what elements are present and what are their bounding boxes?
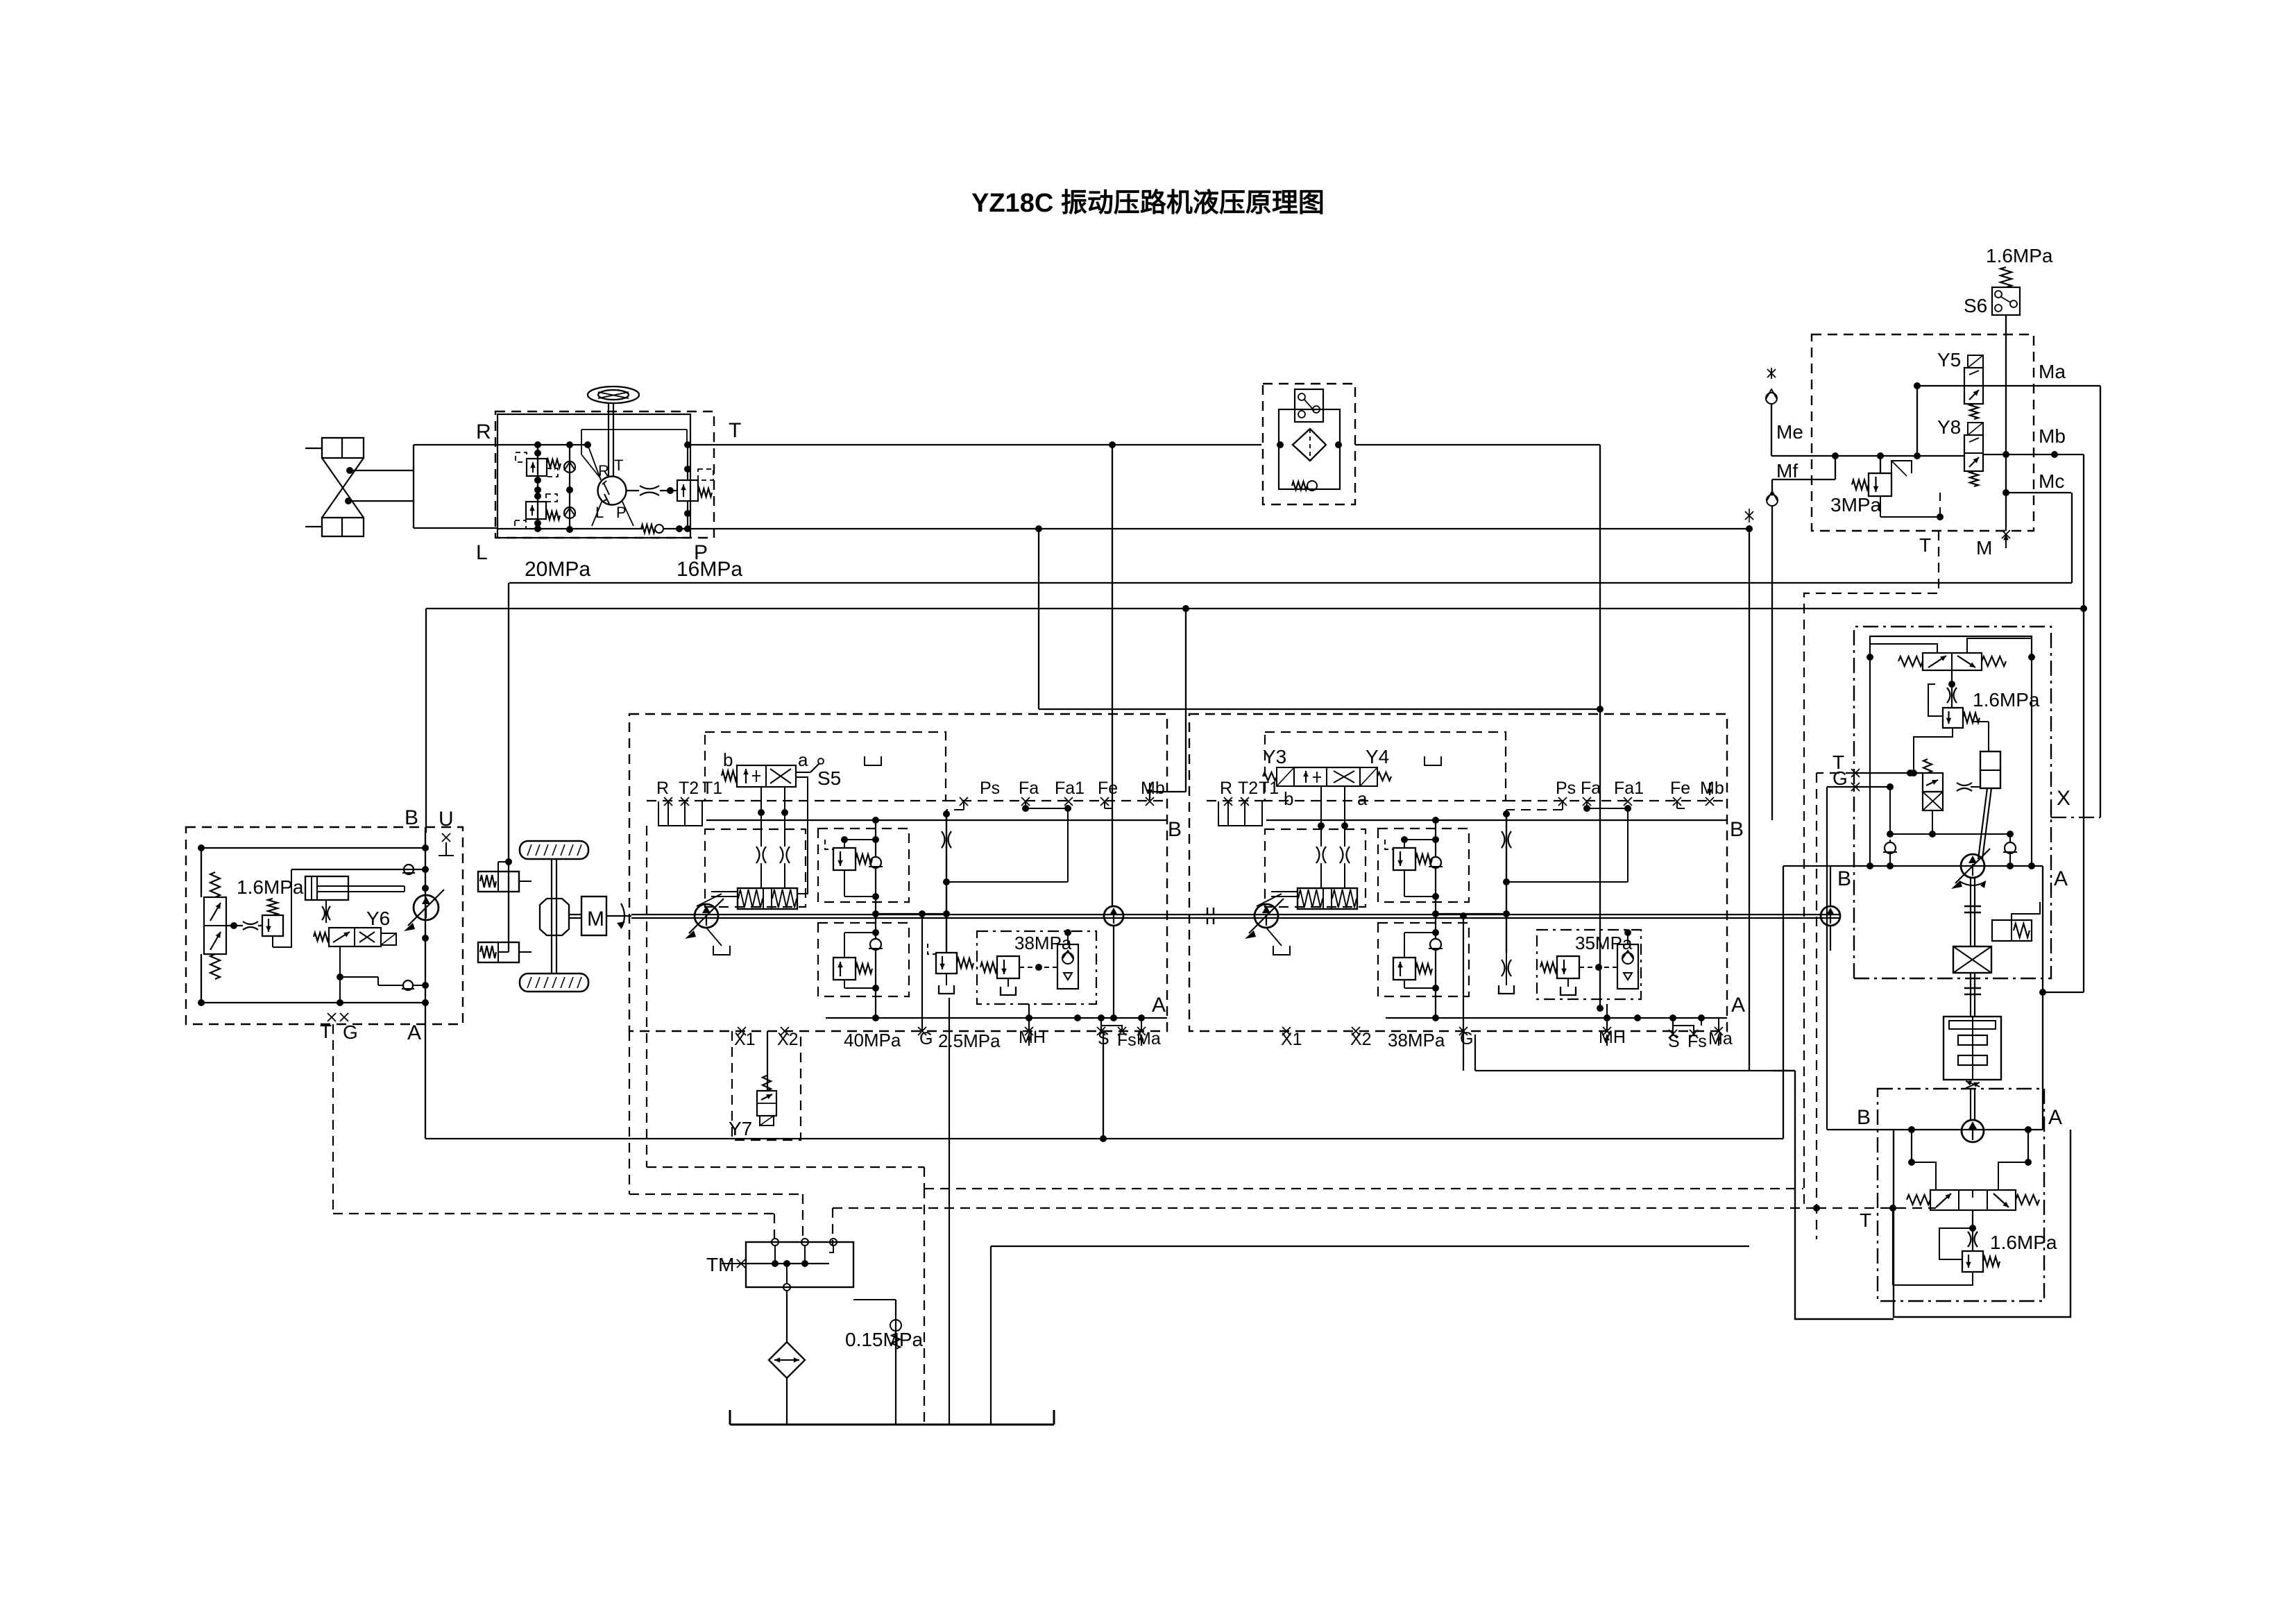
steering wheel	[588, 386, 639, 403]
wire towing drop to left valve block x614	[425, 609, 427, 833]
pump2 high pressure relief upper cluster	[1378, 820, 1469, 909]
wire pump2 A line	[1386, 1014, 1727, 1021]
svg-text:38MPa: 38MPa	[1388, 1030, 1445, 1051]
wire drum motor B A line	[1827, 1126, 2043, 1133]
svg-text:0.15MPa: 0.15MPa	[845, 1329, 923, 1350]
pump2 stroking cylinder	[1257, 888, 1357, 909]
wire Me Mf supply into block	[1771, 452, 1964, 495]
shaft coupling vib top	[1964, 906, 1981, 912]
label B (pump1)	[1168, 818, 1182, 841]
svg-text:R: R	[1220, 779, 1232, 798]
pump1 servo orifices	[756, 813, 790, 888]
pressure switch S6	[1992, 287, 2020, 315]
label Me	[1776, 421, 1803, 443]
wire riser x1709 to pump1 Mb port	[1150, 609, 1186, 800]
pump2 high pressure relief lower cluster	[1378, 909, 1469, 1018]
steering relief riser rail	[534, 441, 541, 532]
svg-text:B: B	[1168, 818, 1182, 841]
vibration arrows below drum	[1966, 1081, 1980, 1089]
pump1 38MPa pilot relief cluster	[977, 929, 1096, 1004]
vibration pump circle	[1951, 849, 1990, 889]
wire pump2 B line	[1266, 810, 1727, 824]
shaft coupling vib bottom	[1964, 988, 1981, 994]
label T (brake block)	[1919, 534, 1931, 556]
drum motor circle	[1962, 1089, 1984, 1142]
svg-text:Y3: Y3	[1263, 746, 1286, 767]
pump1 high pressure relief lower cluster	[818, 909, 909, 1018]
label 1.6MPa (S6 switch)	[1986, 245, 2053, 266]
steering unit dashed enclosure	[495, 411, 714, 538]
return filter inner box	[1279, 409, 1340, 489]
wire S5 to servo	[758, 777, 808, 894]
label A (pump2)	[1731, 994, 1745, 1017]
svg-text:M: M	[1976, 537, 1992, 559]
vibratory drum housing	[1944, 1017, 2001, 1080]
wire suction vertical x1603 from T line to charge pump	[1112, 445, 1113, 906]
solenoid valve Y3 Y4	[1263, 767, 1391, 786]
wire Fe2 riser	[1677, 801, 1685, 808]
svg-text:A: A	[407, 1021, 421, 1044]
label X (vib)	[2057, 787, 2070, 810]
svg-text:T1: T1	[1259, 779, 1279, 798]
steering linkage cross	[322, 458, 364, 518]
svg-text:Fe: Fe	[1670, 779, 1690, 798]
steering bypass orifice with circle	[641, 525, 663, 533]
svg-text:Fe: Fe	[1098, 779, 1118, 798]
label B (vib)	[1837, 867, 1851, 890]
wire vib pilot rail y1202	[1887, 831, 2014, 842]
pump1 G port line	[919, 910, 926, 1031]
svg-text:a: a	[798, 749, 808, 770]
manual valve S5	[722, 758, 824, 787]
towing valve orifice	[226, 921, 262, 930]
charge pump circle	[1104, 906, 1123, 926]
cooler bypass check 0.15MPa	[853, 1300, 901, 1425]
towing directional valve	[204, 872, 226, 979]
svg-text:S5: S5	[817, 767, 841, 789]
label 20MPa	[525, 558, 590, 581]
svg-text:X2: X2	[777, 1030, 799, 1049]
wire check line y1253	[291, 866, 429, 873]
pump1 outer dashed enclosure	[629, 714, 1167, 1031]
label S6	[1964, 295, 1987, 316]
steering unit inner box	[498, 414, 690, 538]
pump2 ports dashed row	[1207, 800, 1727, 801]
svg-text:40MPa: 40MPa	[844, 1030, 901, 1051]
label Y7	[729, 1118, 752, 1139]
steering 16MPa relief valve	[677, 469, 713, 501]
front tyre	[520, 841, 588, 859]
wire vib valve output	[1928, 670, 1957, 716]
steering cylinder body	[322, 438, 364, 536]
wire T return line from steering to filter	[690, 441, 1261, 448]
svg-text:A: A	[1731, 994, 1745, 1017]
label T (drum motor)	[1860, 1209, 1871, 1231]
svg-text:MH: MH	[1599, 1028, 1626, 1047]
pump1 gauge ports R T2 T1	[656, 779, 722, 826]
svg-text:T: T	[729, 419, 741, 442]
wire towing line Mb horizontal y877	[426, 605, 2084, 612]
steering check valve upper	[564, 461, 575, 473]
dashed drains pump1 to TM	[629, 826, 924, 1240]
svg-text:Mf: Mf	[1776, 460, 1798, 482]
label 0.15MPa	[845, 1329, 923, 1350]
svg-text:Mc: Mc	[2039, 470, 2064, 492]
vibration charge relief 1.6MPa	[1943, 708, 1980, 728]
TM top connection circles	[772, 1239, 837, 1264]
check valve Me	[1766, 368, 1777, 456]
label Y3	[1263, 746, 1286, 767]
label B (left block)	[405, 806, 418, 829]
vibration gearbox	[1953, 946, 1991, 973]
svg-text:Mb: Mb	[1700, 779, 1724, 798]
pump2 inner Y3Y4 dashed box	[1265, 732, 1506, 801]
pump2 servo dashed box	[1265, 829, 1366, 907]
TM gauge port	[722, 1259, 746, 1268]
svg-text:Fa1: Fa1	[1614, 779, 1644, 798]
svg-text:T1: T1	[702, 779, 722, 798]
label Mb	[2039, 425, 2066, 447]
pump2 port labels top	[1556, 779, 1724, 806]
label 1.6MPa (vib)	[1973, 689, 2040, 711]
svg-text:16MPa: 16MPa	[677, 558, 742, 581]
pilot bracket symbol pump2	[1425, 756, 1441, 765]
left block port marks	[328, 1013, 348, 1021]
label Ma	[2039, 361, 2066, 382]
pump2 35MPa pilot relief cluster	[1537, 929, 1641, 999]
vibration orifice	[1943, 782, 1972, 791]
pump1 stroking cylinder	[697, 888, 797, 909]
hand pump circle	[404, 890, 444, 931]
svg-text:A: A	[2054, 867, 2068, 890]
label a (pump2)	[1357, 788, 1368, 809]
wire brake drop to wheel brakes x733	[508, 583, 509, 952]
drum drive motor dashdot enclosure	[1878, 1089, 2044, 1301]
label b (pump2)	[1284, 788, 1293, 809]
steering valve connection diagonals	[581, 430, 687, 526]
port label L (steering)	[476, 541, 488, 564]
pump2 servo orifices	[1316, 826, 1350, 888]
wire left block top rail	[198, 844, 429, 851]
label a (pump1)	[798, 749, 808, 770]
svg-text:A: A	[2048, 1106, 2062, 1129]
label T (vib block)	[1832, 751, 1844, 773]
main drive shaft	[631, 915, 1840, 918]
label Y4	[1366, 746, 1389, 767]
svg-text:Y7: Y7	[729, 1118, 752, 1139]
svg-text:X1: X1	[734, 1030, 756, 1049]
vibration block dashdot enclosure	[1854, 627, 2051, 978]
label A (left block)	[407, 1021, 421, 1044]
svg-text:1.6MPa: 1.6MPa	[1990, 1232, 2057, 1253]
wire charge pump to A	[1110, 926, 1117, 1021]
label B (pump2)	[1730, 818, 1744, 841]
svg-text:Me: Me	[1776, 421, 1803, 443]
wire suction header y1796	[991, 1246, 1749, 1247]
wire cooler to tank	[786, 1378, 788, 1425]
steering flow restrictor	[626, 486, 677, 495]
svg-text:T: T	[1860, 1209, 1871, 1231]
drive shaft diff to engine	[569, 915, 581, 918]
label 35MPa (pump2 pilot)	[1575, 933, 1633, 953]
pump1 main pump circle	[685, 899, 724, 939]
pilot bracket symbol pump1	[865, 756, 881, 765]
vib block T G ports	[1851, 769, 1923, 834]
TM manifold box	[746, 1242, 853, 1287]
vibration shaft lower	[1971, 973, 1975, 1017]
wire vib motor B A line	[1783, 863, 2043, 869]
solenoid valve Y5	[1964, 355, 1983, 419]
pump2 gauge ports R T2 T1	[1218, 779, 1279, 826]
svg-text:TM: TM	[706, 1254, 734, 1275]
steering column shaft	[609, 403, 613, 477]
charge pump 2 circle	[1821, 906, 1840, 926]
wire cylinder to steering valve L line	[414, 527, 498, 529]
pump1 servo dashed box	[705, 829, 806, 907]
svg-text:MH: MH	[1019, 1028, 1046, 1047]
solenoid valve Y8	[1964, 423, 1983, 486]
wire T drain into drum block	[1817, 1205, 1936, 1212]
brake actuator front	[478, 872, 532, 892]
differential housing	[540, 899, 569, 935]
wire X pilot line	[2050, 810, 2052, 817]
relief valve 3MPa	[1852, 461, 1912, 496]
svg-text:Y8: Y8	[1937, 416, 1961, 438]
axle shafts	[552, 859, 556, 974]
label 3MPa	[1830, 494, 1882, 516]
wire Fe riser	[1105, 801, 1112, 808]
steering valve port labels	[595, 457, 627, 521]
svg-text:T2: T2	[1238, 779, 1258, 798]
towing pressure reducing valve	[262, 869, 283, 936]
wire Mc from junction	[2006, 492, 2071, 493]
Y7 dashed enclosure	[732, 1031, 801, 1140]
solenoid valve Y7	[757, 1031, 776, 1125]
svg-text:1.6MPa: 1.6MPa	[1986, 245, 2053, 266]
vibration shaft down	[1971, 878, 1975, 946]
svg-text:38MPa: 38MPa	[1014, 933, 1072, 953]
return filter dashed enclosure	[1263, 384, 1355, 504]
port U symbol	[439, 833, 454, 856]
steering relief valve lower	[515, 494, 560, 529]
label A (pump1)	[1152, 994, 1166, 1017]
svg-text:Fa1: Fa1	[1055, 779, 1085, 798]
engine box M	[581, 897, 606, 935]
label Y5	[1937, 349, 1961, 371]
wire P trunk vertical x2521	[1749, 529, 1750, 1071]
label b (pump1)	[723, 749, 733, 770]
left valve block dashed enclosure	[186, 827, 463, 1024]
svg-text:1.6MPa: 1.6MPa	[237, 876, 304, 898]
pump1 port labels top	[960, 779, 1165, 806]
label 1.6MPa (left block)	[237, 876, 304, 898]
svg-text:Mb: Mb	[2039, 425, 2066, 447]
pump2 main pump circle	[1245, 899, 1284, 939]
drum motor flushing valve	[1907, 1190, 2039, 1210]
wire return x1428 to tank	[990, 1246, 992, 1425]
TM internal rail	[746, 1260, 829, 1267]
wire vib valve pilots	[1866, 638, 2035, 661]
label Y8	[1937, 416, 1961, 438]
svg-text:B: B	[1730, 818, 1744, 841]
dashed drain rail y1741	[833, 1205, 1820, 1246]
wire drum relief drain	[1893, 1208, 1973, 1285]
wire Mb drop x3003	[2039, 454, 2087, 996]
wire case drain to tank x1378	[949, 998, 950, 1425]
svg-text:A: A	[1152, 994, 1166, 1017]
svg-text:Mb: Mb	[1141, 779, 1165, 798]
check valve Mf	[1767, 491, 1778, 820]
wire T return after filter to down trunk	[1355, 444, 1600, 445]
steering 16MPa riser	[684, 441, 691, 532]
label T (left block)	[320, 1021, 332, 1042]
pump2 port labels bottom	[1281, 1027, 1733, 1051]
pump2 S Fs Ma wires	[1604, 1004, 1719, 1034]
wire charge pump2 ports	[1830, 866, 1831, 951]
svg-text:L: L	[476, 541, 488, 564]
shaft coupling 1	[1207, 908, 1214, 924]
wire pump2 charge branch	[1432, 801, 1631, 953]
wire charge line x1497 and y1022	[1039, 529, 1600, 709]
label U	[439, 808, 454, 831]
svg-text:T: T	[1919, 534, 1931, 556]
gauge port on P trunk	[1745, 509, 1753, 522]
wire left block left risers	[201, 848, 202, 1003]
svg-text:20MPa: 20MPa	[525, 558, 590, 581]
wire left block bottom rail	[198, 999, 429, 1006]
dashed return to tank	[924, 1189, 1803, 1425]
wire B-A trunk through left block	[422, 827, 429, 1024]
svg-text:U: U	[439, 808, 454, 831]
svg-text:YZ18C 振动压路机液压原理图: YZ18C 振动压路机液压原理图	[971, 189, 1325, 218]
wire vib relief drain	[1910, 728, 1953, 776]
vibration stroking cylinder	[1971, 722, 2000, 859]
wire pump1 A line	[826, 1014, 1167, 1021]
brake master cylinder	[305, 876, 405, 900]
pump1 port labels bottom	[734, 1027, 1161, 1051]
pump1 charge relief 2.5MPa	[928, 944, 973, 994]
wire A drop and bottom header y1641	[425, 1024, 1783, 1142]
TM bottom connection circle	[783, 1267, 790, 1291]
svg-text:Fa: Fa	[1019, 779, 1039, 798]
port label T (steering)	[729, 419, 741, 442]
svg-text:S: S	[1098, 1029, 1109, 1048]
svg-text:Y5: Y5	[1937, 349, 1961, 371]
wire pump2 suction envelope	[1475, 1035, 1773, 1246]
wire Y3Y4 to servo	[1318, 786, 1348, 829]
label G (vib block)	[1832, 767, 1848, 789]
svg-text:Ma: Ma	[2039, 361, 2066, 382]
label M with arrow	[1976, 530, 2010, 559]
svg-text:b: b	[1284, 788, 1293, 809]
port label P (steering)	[694, 541, 708, 564]
pump1 MH S Fs Ma wires	[1026, 1004, 1141, 1031]
wire flushing valve output	[1939, 1210, 1978, 1259]
svg-text:Ps: Ps	[980, 779, 1000, 798]
wire S6 to Mb junction	[2002, 315, 2009, 531]
svg-text:X: X	[2057, 787, 2070, 810]
wire vib B drop to bottom header	[1783, 866, 1784, 1139]
label TM	[706, 1254, 734, 1275]
brake control dashed enclosure	[1812, 334, 2034, 531]
svg-text:G: G	[343, 1021, 358, 1043]
svg-text:T2: T2	[679, 779, 699, 798]
label Mf	[1776, 460, 1798, 482]
solenoid valve Y6	[314, 928, 396, 946]
steering unit bottom rail	[498, 525, 683, 532]
label A (vib)	[2054, 867, 2068, 890]
svg-text:S6: S6	[1964, 295, 1987, 316]
label Y6	[366, 908, 390, 929]
wire brake feed junction	[498, 858, 512, 952]
wire brake line Mc horizontal y840	[509, 582, 2072, 584]
pump1 inner S5 dashed box	[705, 732, 946, 801]
svg-text:Y4: Y4	[1366, 746, 1389, 767]
svg-text:b: b	[723, 749, 733, 770]
svg-text:B: B	[1837, 867, 1851, 890]
wire cylinder to steering valve R line	[348, 445, 498, 528]
rear tyre	[520, 974, 588, 992]
svg-text:R: R	[476, 420, 491, 443]
vibration direction valve	[1898, 653, 2006, 670]
svg-text:B: B	[405, 806, 418, 829]
vibration damper spring box	[1975, 902, 2040, 941]
wire return trunk vertical x2306	[1597, 445, 1604, 1012]
wire Ma drop x3027	[2051, 386, 2100, 817]
pump1 ports dashed row	[647, 800, 1167, 801]
return filter element	[1293, 429, 1326, 461]
label A (drum motor)	[2048, 1106, 2062, 1129]
svg-text:Ps: Ps	[1556, 779, 1576, 798]
svg-text:G: G	[1832, 767, 1848, 789]
svg-text:Fa: Fa	[1581, 779, 1601, 798]
wire pump1 B line	[706, 810, 1167, 824]
svg-text:T: T	[320, 1021, 332, 1042]
check valve lower	[378, 980, 429, 990]
wire Ma from Y5	[1914, 382, 2100, 459]
oil cooler	[769, 1342, 805, 1378]
wire vib A drop to bottom motor	[2042, 866, 2043, 1130]
dashed drain from left block T	[333, 1024, 774, 1240]
pump2 case drain symbol	[1266, 928, 1290, 955]
pump1 high pressure relief upper cluster	[818, 820, 909, 909]
filter bypass relief	[1292, 481, 1317, 491]
wire TM to cooler	[786, 1291, 788, 1342]
svg-text:T: T	[614, 457, 623, 474]
steering check valve lower	[564, 507, 575, 518]
vib check valve left	[1883, 840, 1897, 866]
label Mc	[2039, 470, 2064, 492]
label S5	[817, 767, 841, 789]
steering relief valve upper	[516, 452, 561, 477]
label B (drum motor)	[1857, 1106, 1871, 1129]
label G (left block)	[343, 1021, 358, 1043]
label 38MPa (pump1 pilot)	[1014, 933, 1072, 953]
svg-text:B: B	[1857, 1106, 1871, 1129]
svg-text:R: R	[656, 779, 669, 798]
wire drum motor A-envelope link	[1773, 1071, 1894, 1319]
3MPa pilot dashed	[1880, 493, 1944, 520]
label 1.6MPa (drum motor)	[1990, 1232, 2057, 1253]
check valve to B	[402, 865, 415, 874]
steering rotary valve circle	[598, 477, 627, 505]
steering check riser rail	[566, 441, 573, 533]
wire drum motor valve feeds	[1908, 1130, 2032, 1190]
svg-text:Y6: Y6	[366, 908, 390, 929]
tank	[730, 1410, 1054, 1425]
pump2 outer dashed enclosure	[1189, 714, 1727, 1031]
port label R (steering)	[476, 420, 491, 443]
